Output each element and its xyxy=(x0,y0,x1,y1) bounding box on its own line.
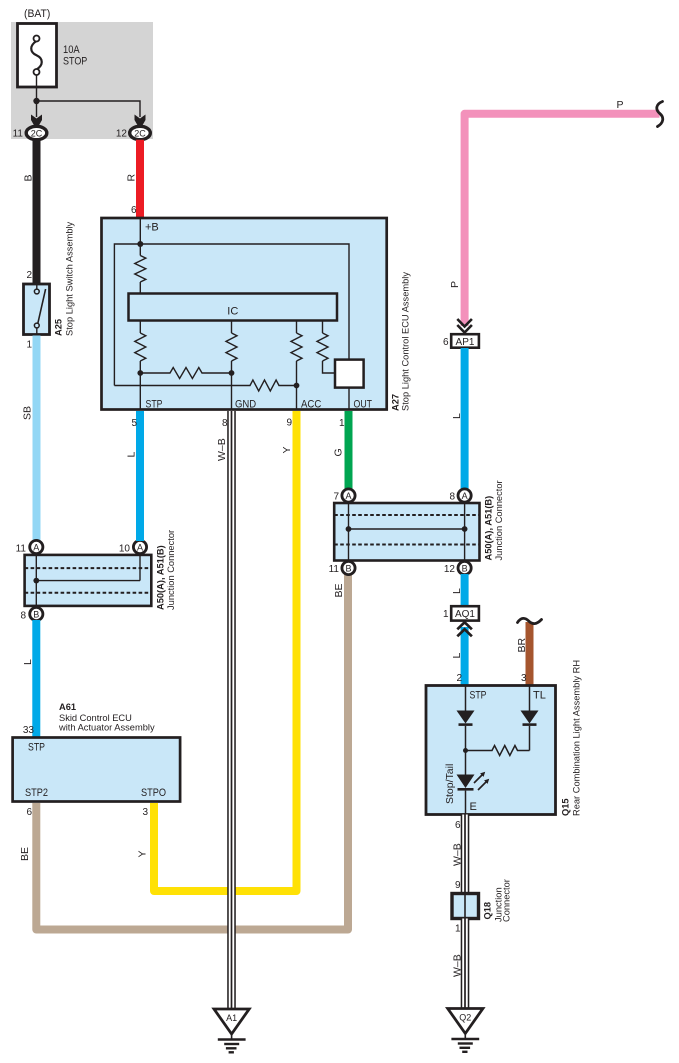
wire STP internal xyxy=(465,686,467,711)
wire +B internal xyxy=(139,218,141,256)
terminal circle A pin 10 xyxy=(133,540,146,553)
wire STP leg to pin xyxy=(139,361,141,409)
svg-text:A50(A), A51(B): A50(A), A51(B) xyxy=(484,496,494,561)
svg-text:STP: STP xyxy=(28,742,45,754)
svg-text:GND: GND xyxy=(235,399,256,411)
svg-text:IC: IC xyxy=(227,306,238,318)
svg-text:33: 33 xyxy=(23,725,35,736)
svg-text:12: 12 xyxy=(444,564,456,575)
svg-text:2C: 2C xyxy=(31,128,43,138)
node GND dot xyxy=(229,370,235,376)
svg-text:11: 11 xyxy=(13,129,24,140)
svg-text:L: L xyxy=(451,653,463,659)
junction connector A50/A51 right box xyxy=(334,503,479,561)
wire IC to GND leg xyxy=(231,321,233,334)
svg-text:SB: SB xyxy=(22,406,34,420)
svg-text:STP: STP xyxy=(470,690,487,702)
node junction dot xyxy=(33,98,39,104)
svg-text:L: L xyxy=(126,452,138,458)
svg-text:3: 3 xyxy=(142,807,148,818)
svg-text:A25: A25 xyxy=(54,319,64,336)
svg-text:A61: A61 xyxy=(59,702,76,712)
svg-text:11: 11 xyxy=(16,544,27,555)
svg-text:Skid Control ECU: Skid Control ECU xyxy=(59,713,132,723)
ground A1 xyxy=(214,1009,249,1052)
wire L from AQ1 to Q15 xyxy=(461,627,469,685)
wire L from AP1 to A8 xyxy=(461,348,469,489)
switch A25 Stop Light Switch Assembly xyxy=(24,284,50,335)
connector AP1 xyxy=(451,334,479,348)
ECU A61 Skid Control ECU with Actuator Assembly xyxy=(13,738,181,802)
svg-text:R: R xyxy=(126,174,138,182)
wire TL diode down xyxy=(529,726,531,751)
svg-text:BE: BE xyxy=(333,583,345,597)
svg-text:L: L xyxy=(22,659,34,665)
resistor STP leg xyxy=(135,333,146,361)
svg-text:8: 8 xyxy=(449,492,455,503)
svg-text:Connector: Connector xyxy=(502,879,512,922)
svg-text:STP: STP xyxy=(146,399,163,411)
svg-text:+B: +B xyxy=(145,222,159,234)
wire LED to E pin xyxy=(465,791,467,815)
svg-text:A: A xyxy=(345,491,351,501)
svg-text:Q18: Q18 xyxy=(483,902,493,920)
svg-text:B: B xyxy=(462,563,468,573)
wire G from OUT to A7 xyxy=(345,411,353,489)
ground Q2 xyxy=(448,1009,483,1052)
node STP dot xyxy=(137,370,143,376)
svg-text:(BAT): (BAT) xyxy=(24,8,50,20)
ECU A27 Stop Light Control ECU Assembly xyxy=(102,218,387,410)
svg-text:Junction Connector: Junction Connector xyxy=(494,480,504,560)
connector oval 2C pin 11 xyxy=(26,126,47,139)
svg-text:E: E xyxy=(470,801,477,813)
wire SB xyxy=(33,336,41,542)
wire resistor to output stage xyxy=(323,361,336,373)
chevron arrows into AP1 xyxy=(457,319,472,333)
svg-text:2: 2 xyxy=(456,673,462,684)
svg-text:6: 6 xyxy=(26,807,32,818)
svg-text:2: 2 xyxy=(26,270,32,281)
resistor between STP and GND xyxy=(140,368,231,379)
svg-text:A: A xyxy=(462,491,468,501)
svg-text:Stop Light Switch Assembly: Stop Light Switch Assembly xyxy=(65,221,75,336)
svg-text:9: 9 xyxy=(455,880,461,891)
svg-text:G: G xyxy=(333,448,345,456)
terminal circle A pin 7 xyxy=(342,489,355,502)
svg-text:7: 7 xyxy=(333,492,339,503)
resistor ACC leg xyxy=(291,333,302,361)
svg-text:Junction Connector: Junction Connector xyxy=(166,530,176,610)
wire fuse to junction xyxy=(36,75,38,101)
svg-text:2C: 2C xyxy=(134,128,146,138)
svg-text:Y: Y xyxy=(281,446,293,453)
svg-text:5: 5 xyxy=(131,418,137,429)
svg-text:6: 6 xyxy=(131,205,137,216)
fuse F1 10A STOP xyxy=(18,24,57,88)
svg-text:A50(A), A51(B): A50(A), A51(B) xyxy=(156,545,166,610)
svg-text:BE: BE xyxy=(19,847,31,861)
IC U1 xyxy=(129,294,338,321)
svg-text:3: 3 xyxy=(521,673,527,684)
wire IC to output transistor leg xyxy=(322,321,324,334)
wire resistor to IC xyxy=(139,282,141,294)
terminal circle A pin 8 xyxy=(458,489,471,502)
svg-text:1: 1 xyxy=(455,924,461,935)
break squiggle pink wire xyxy=(657,102,663,127)
resistor stop/tail xyxy=(466,746,530,756)
wire R red to ECU xyxy=(136,140,144,217)
wire internal top loop xyxy=(114,244,349,386)
svg-text:A: A xyxy=(33,542,39,552)
svg-text:with Actuator Assembly: with Actuator Assembly xyxy=(58,723,155,733)
terminal circle A pin 11 xyxy=(30,540,43,553)
wire IC to STP leg xyxy=(139,321,141,334)
wire IC to ACC leg xyxy=(296,321,298,334)
svg-text:Y: Y xyxy=(137,850,149,857)
svg-text:P: P xyxy=(617,99,624,111)
wire L from B8 to A61 xyxy=(32,620,40,737)
svg-text:A1: A1 xyxy=(226,1013,237,1023)
wire diode to node xyxy=(465,726,467,775)
svg-text:Stop Light Control ECU Assembl: Stop Light Control ECU Assembly xyxy=(401,272,411,411)
LED stop/tail bulb xyxy=(457,775,475,789)
resistor GND leg xyxy=(226,333,237,361)
svg-text:6: 6 xyxy=(443,337,449,348)
terminal circle B pin 8 xyxy=(30,607,43,620)
svg-text:A27: A27 xyxy=(391,394,401,411)
svg-text:9: 9 xyxy=(286,418,292,429)
svg-text:Q15: Q15 xyxy=(561,798,571,816)
connector AQ1 xyxy=(451,606,479,620)
svg-text:A: A xyxy=(137,542,143,552)
terminal circle B pin 11 xyxy=(342,561,355,574)
wire P pink xyxy=(465,114,660,326)
svg-text:STPO: STPO xyxy=(141,787,166,799)
svg-text:1: 1 xyxy=(443,609,449,620)
wire W-B from GND to ground A1 xyxy=(230,411,234,1009)
svg-text:W–B: W–B xyxy=(452,954,464,977)
wire ACC leg to pin xyxy=(296,361,298,409)
svg-text:STOP: STOP xyxy=(63,56,87,68)
svg-text:BR: BR xyxy=(516,637,528,652)
svg-text:L: L xyxy=(451,588,463,594)
svg-text:B: B xyxy=(345,563,351,573)
wire W-B from Q15 to Q18 xyxy=(463,815,467,894)
svg-text:TL: TL xyxy=(533,690,546,702)
connector oval 2C pin 12 xyxy=(130,126,151,139)
arrow into connector 11 xyxy=(31,115,42,128)
diode D2 tail xyxy=(521,711,539,724)
break squiggle BR wire xyxy=(518,618,542,623)
node dot xyxy=(463,748,468,753)
svg-text:12: 12 xyxy=(116,129,128,140)
arrow into connector 12 xyxy=(135,115,146,128)
wire BE from STP2 of A61 to B11 xyxy=(36,574,348,930)
svg-text:OUT: OUT xyxy=(354,399,373,411)
wire B black to switch xyxy=(33,140,41,284)
terminal circle B pin 12 xyxy=(458,561,471,574)
svg-text:AP1: AP1 xyxy=(456,337,475,348)
svg-text:8: 8 xyxy=(222,418,228,429)
svg-text:B: B xyxy=(23,174,35,181)
svg-text:P: P xyxy=(449,281,461,288)
resistor lower left to ACC xyxy=(114,380,296,391)
resistor +B pull-up xyxy=(135,256,146,282)
wire L from STP pin 5 to A10 xyxy=(136,411,144,541)
wire BR to TL xyxy=(526,622,534,685)
junction connector Q18 xyxy=(452,894,479,919)
svg-text:1: 1 xyxy=(26,340,32,351)
wire junction to pin 12 branch xyxy=(37,101,141,117)
wire W-B from Q18 to ground Q2 xyxy=(463,919,467,1009)
svg-text:10: 10 xyxy=(119,544,131,555)
output stage box Q xyxy=(335,360,364,388)
battery supply shaded area xyxy=(11,22,153,139)
svg-text:L: L xyxy=(451,413,463,419)
svg-text:Q2: Q2 xyxy=(459,1013,471,1023)
diode D1 stop xyxy=(457,711,475,724)
wire GND leg to pin xyxy=(231,361,233,409)
svg-text:AQ1: AQ1 xyxy=(455,609,475,620)
Q15 Rear Combination Light Assembly RH xyxy=(426,686,556,815)
LED emission arrows xyxy=(474,775,482,783)
svg-text:1: 1 xyxy=(339,418,345,429)
wire Y from ACC to STPO of A61 xyxy=(154,411,297,891)
svg-text:Stop/Tail: Stop/Tail xyxy=(444,764,456,804)
svg-text:8: 8 xyxy=(20,611,26,622)
svg-text:Rear Combination Light Assembl: Rear Combination Light Assembly RH xyxy=(572,660,582,816)
node +B dot xyxy=(137,241,143,247)
svg-text:B: B xyxy=(33,609,39,619)
wire TL internal xyxy=(529,686,531,711)
node ACC dot xyxy=(294,383,300,389)
junction connector A50/A51 left box xyxy=(25,555,152,606)
svg-text:W–B: W–B xyxy=(452,843,464,866)
chevron arrows out of AQ1 xyxy=(457,622,472,636)
svg-text:6: 6 xyxy=(455,820,461,831)
svg-text:STP2: STP2 xyxy=(25,787,48,799)
svg-text:ACC: ACC xyxy=(301,399,321,411)
svg-text:10A: 10A xyxy=(63,44,80,56)
svg-text:W–B: W–B xyxy=(216,438,228,461)
wire junction to pin 11 xyxy=(36,101,38,117)
svg-text:11: 11 xyxy=(329,564,340,575)
resistor output leg xyxy=(317,333,328,361)
wire L from B12 to AQ1 xyxy=(461,574,469,606)
wire output stage to OUT pin xyxy=(348,388,350,409)
